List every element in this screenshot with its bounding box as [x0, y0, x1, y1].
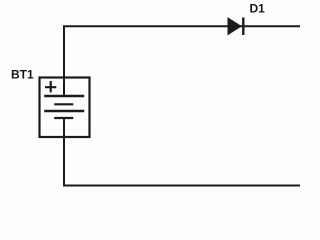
svg-text:BT1: BT1 [11, 68, 34, 82]
svg-text:D1: D1 [250, 2, 266, 16]
